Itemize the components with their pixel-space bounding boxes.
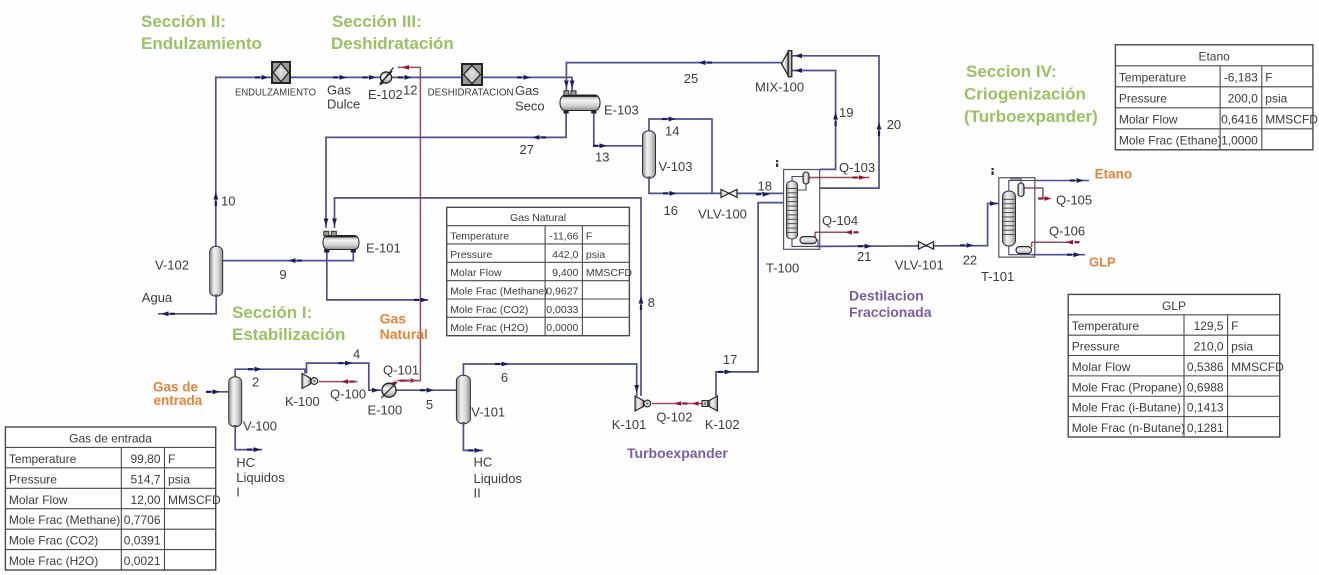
- svg-text:Pressure: Pressure: [9, 472, 57, 486]
- svg-text:Gas Natural: Gas Natural: [510, 212, 566, 224]
- svg-text:E-102: E-102: [368, 87, 403, 102]
- svg-text:0,0000: 0,0000: [546, 322, 578, 334]
- svg-text:Turboexpander: Turboexpander: [627, 445, 728, 461]
- svg-text:Pressure: Pressure: [1119, 92, 1167, 106]
- svg-text:19: 19: [839, 105, 853, 120]
- svg-text:Endulzamiento: Endulzamiento: [141, 34, 262, 53]
- svg-text:8: 8: [648, 295, 655, 310]
- svg-text:Molar Flow: Molar Flow: [1119, 113, 1178, 127]
- svg-text:V-101: V-101: [471, 405, 505, 420]
- svg-text:0,5386: 0,5386: [1187, 360, 1224, 374]
- svg-text:K-100: K-100: [285, 394, 320, 409]
- svg-text:Etano: Etano: [1198, 50, 1230, 64]
- svg-text:Mole Frac (n-Butane): Mole Frac (n-Butane): [1072, 421, 1185, 435]
- svg-text:Mole Frac (i-Butane): Mole Frac (i-Butane): [1072, 401, 1181, 415]
- svg-text:Destilacion: Destilacion: [849, 288, 924, 304]
- svg-text:9,400: 9,400: [552, 267, 578, 279]
- svg-text:Molar Flow: Molar Flow: [1072, 360, 1131, 374]
- svg-text:HC: HC: [236, 455, 255, 470]
- svg-text:Mole Frac (Propane): Mole Frac (Propane): [1072, 380, 1182, 394]
- svg-text:-6,183: -6,183: [1224, 71, 1258, 85]
- svg-text:22: 22: [963, 253, 977, 268]
- svg-text:Mole Frac (Ethane): Mole Frac (Ethane): [1119, 134, 1222, 148]
- svg-text:Criogenización: Criogenización: [964, 85, 1086, 104]
- svg-text:F: F: [1265, 71, 1272, 85]
- svg-text:21: 21: [857, 249, 871, 264]
- svg-text:Q-100: Q-100: [330, 387, 366, 402]
- svg-text:ENDULZAMIENTO: ENDULZAMIENTO: [235, 88, 316, 99]
- svg-text:5: 5: [426, 397, 433, 412]
- svg-text:Mole Frac (Methane): Mole Frac (Methane): [9, 513, 120, 527]
- svg-text:Natural: Natural: [380, 326, 428, 342]
- svg-text:F: F: [1231, 319, 1238, 333]
- svg-text:12: 12: [403, 83, 417, 98]
- svg-text:Mole Frac (Methane): Mole Frac (Methane): [450, 285, 547, 297]
- svg-text:99,80: 99,80: [130, 452, 160, 466]
- svg-text:210,0: 210,0: [1194, 340, 1224, 354]
- svg-text:Gas: Gas: [515, 83, 539, 98]
- svg-text:psia: psia: [168, 472, 190, 486]
- svg-text:Deshidratación: Deshidratación: [331, 34, 454, 53]
- svg-text:GLP: GLP: [1162, 299, 1186, 313]
- svg-text:Molar Flow: Molar Flow: [450, 267, 502, 279]
- svg-text:0,9627: 0,9627: [546, 285, 578, 297]
- svg-text:0,0033: 0,0033: [546, 304, 578, 316]
- svg-text:Seco: Seco: [515, 99, 545, 114]
- svg-text:E-101: E-101: [366, 241, 401, 256]
- svg-text:Liquidos: Liquidos: [236, 470, 285, 485]
- svg-text:Gas de entrada: Gas de entrada: [69, 431, 152, 445]
- svg-text:MIX-100: MIX-100: [755, 80, 804, 95]
- svg-text:Sección III:: Sección III:: [332, 12, 422, 31]
- svg-text:Sección II:: Sección II:: [141, 12, 226, 31]
- svg-text:Molar Flow: Molar Flow: [9, 493, 68, 507]
- svg-text:17: 17: [723, 352, 737, 367]
- svg-text:Mole Frac (H2O): Mole Frac (H2O): [9, 554, 98, 568]
- svg-text:E-103: E-103: [604, 103, 639, 118]
- svg-text:Mole Frac (H2O): Mole Frac (H2O): [450, 322, 528, 334]
- svg-text:psia: psia: [586, 249, 605, 261]
- svg-text:K-101: K-101: [612, 417, 647, 432]
- svg-text:20: 20: [887, 117, 901, 132]
- svg-text:(Turboexpander): (Turboexpander): [964, 107, 1098, 126]
- svg-text:GLP: GLP: [1089, 255, 1116, 270]
- svg-text:0,1413: 0,1413: [1187, 401, 1224, 415]
- svg-text:514,7: 514,7: [130, 472, 160, 486]
- svg-text:Temperature: Temperature: [1072, 319, 1140, 333]
- svg-text:F: F: [168, 452, 175, 466]
- svg-text:27: 27: [520, 142, 534, 157]
- svg-text:18: 18: [758, 179, 772, 194]
- svg-text:T-101: T-101: [981, 269, 1014, 284]
- svg-text:Q-103: Q-103: [839, 160, 875, 175]
- svg-text:Q-106: Q-106: [1049, 224, 1085, 239]
- svg-text:Etano: Etano: [1095, 167, 1133, 182]
- svg-text:DESHIDRATACION: DESHIDRATACION: [428, 88, 514, 99]
- svg-text:Q-105: Q-105: [1056, 193, 1092, 208]
- svg-text:Gas: Gas: [327, 83, 351, 98]
- svg-text:Q-101: Q-101: [383, 363, 419, 378]
- svg-text:Temperature: Temperature: [9, 452, 77, 466]
- svg-text:MMSCFD: MMSCFD: [1231, 360, 1284, 374]
- svg-text:K-102: K-102: [705, 417, 740, 432]
- svg-text:9: 9: [279, 267, 286, 282]
- svg-text:I: I: [236, 485, 240, 500]
- svg-text:Sección I:: Sección I:: [232, 303, 312, 322]
- svg-text:T-100: T-100: [766, 261, 799, 276]
- svg-text:129,5: 129,5: [1194, 319, 1224, 333]
- svg-text:Mole Frac (CO2): Mole Frac (CO2): [450, 304, 528, 316]
- svg-text:0,1281: 0,1281: [1187, 421, 1224, 435]
- svg-text:Estabilización: Estabilización: [232, 325, 345, 344]
- svg-text:Mole Frac (CO2): Mole Frac (CO2): [9, 534, 98, 548]
- svg-text:V-102: V-102: [155, 258, 189, 273]
- svg-text:10: 10: [221, 194, 235, 209]
- svg-text:25: 25: [684, 71, 698, 86]
- svg-text:HC: HC: [474, 455, 493, 470]
- svg-text:13: 13: [595, 150, 609, 165]
- svg-text:2: 2: [252, 375, 259, 390]
- svg-text:6: 6: [501, 370, 508, 385]
- svg-text:Liquidos: Liquidos: [474, 471, 523, 486]
- svg-text:200,0: 200,0: [1228, 92, 1258, 106]
- svg-text:Fraccionada: Fraccionada: [849, 304, 932, 320]
- svg-text:V-100: V-100: [243, 419, 277, 434]
- svg-text:1,0000: 1,0000: [1221, 134, 1258, 148]
- svg-text:MMSCFD: MMSCFD: [1265, 113, 1318, 127]
- svg-text:0,7706: 0,7706: [124, 513, 161, 527]
- svg-text:V-103: V-103: [659, 159, 693, 174]
- svg-text:entrada: entrada: [154, 393, 203, 408]
- svg-text:Temperature: Temperature: [1119, 71, 1187, 85]
- svg-text:VLV-101: VLV-101: [895, 258, 944, 273]
- svg-text:Pressure: Pressure: [450, 249, 492, 261]
- svg-text:Gas: Gas: [380, 311, 407, 327]
- svg-text:442,0: 442,0: [552, 249, 578, 261]
- svg-text:Dulce: Dulce: [327, 97, 360, 112]
- svg-text:MMSCFD: MMSCFD: [586, 267, 632, 279]
- svg-text:16: 16: [664, 203, 678, 218]
- svg-text:Agua: Agua: [142, 290, 173, 305]
- svg-text:Q-104: Q-104: [822, 213, 858, 228]
- svg-text:MMSCFD: MMSCFD: [168, 493, 221, 507]
- svg-text:VLV-100: VLV-100: [698, 207, 747, 222]
- svg-text:Seccion IV:: Seccion IV:: [966, 62, 1057, 81]
- svg-text:4: 4: [353, 347, 360, 362]
- svg-text:E-100: E-100: [368, 403, 403, 418]
- svg-text:II: II: [474, 486, 481, 501]
- svg-text:0,0391: 0,0391: [124, 534, 161, 548]
- svg-text:Temperature: Temperature: [450, 230, 509, 242]
- svg-text:14: 14: [665, 124, 679, 139]
- svg-text:F: F: [586, 230, 592, 242]
- svg-text:0,6416: 0,6416: [1221, 113, 1258, 127]
- svg-text:Q-102: Q-102: [656, 410, 692, 425]
- svg-text:0,6988: 0,6988: [1187, 380, 1224, 394]
- svg-text:-11,66: -11,66: [549, 230, 578, 242]
- svg-text:12,00: 12,00: [130, 493, 160, 507]
- svg-text:psia: psia: [1265, 92, 1287, 106]
- svg-text:0,0021: 0,0021: [124, 554, 161, 568]
- svg-text:Pressure: Pressure: [1072, 340, 1120, 354]
- svg-text:psia: psia: [1231, 340, 1253, 354]
